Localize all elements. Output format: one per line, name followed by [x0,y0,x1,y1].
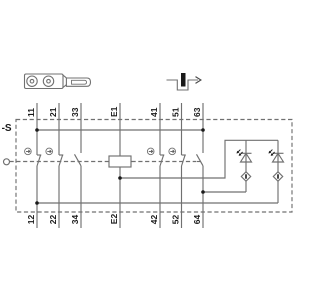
svg-text:33: 33 [70,107,80,117]
terminal E2 [109,167,120,228]
svg-text:51: 51 [171,107,181,117]
svg-text:41: 41 [149,107,159,117]
terminal 22 [48,166,59,228]
terminal 21 [48,103,59,155]
terminal 52 [171,166,182,228]
icon: module insertion symbol with arrow [167,73,201,90]
svg-text:63: 63 [192,107,202,117]
series element F2 (diamond) [273,172,282,181]
junction at 12 [35,201,39,205]
terminal 11 [26,103,37,155]
wire coil E2 to LED bus [120,140,278,178]
svg-text:-S: -S [2,123,12,134]
contact 51-52 NC blade and seat [182,155,186,166]
LED V2 [269,150,284,162]
svg-text:34: 34 [70,214,80,224]
svg-text:42: 42 [149,214,159,224]
contact 11-12 NC blade and seat [37,155,41,166]
wire 12 to LED branch 2 [37,202,278,204]
junction at 64 [201,190,205,194]
mechanical linkage (dashed) [10,161,201,163]
LED branch 2 wire [277,140,279,203]
terminal 63 [192,103,203,153]
contact 33-34 NO blade [75,154,82,166]
wire top bus 11 to 63 [37,129,203,131]
terminal E1 [109,103,120,156]
LED branch 1 wire [245,140,247,192]
enclosure dashed outline [16,120,292,213]
positive-opening symbol at contact 11-12 [25,148,32,155]
contact 21-22 NC blade and seat [59,155,63,166]
svg-text:11: 11 [26,108,36,117]
terminal 42 [149,166,160,228]
svg-text:21: 21 [48,107,58,117]
positive-opening symbol at contact 41-42 [147,148,154,155]
series element F1 (diamond) [241,172,250,181]
terminal 64 [192,166,203,228]
reference designator -S [2,123,12,134]
svg-text:12: 12 [26,214,36,224]
terminal 34 [70,166,81,228]
icon: plug-in relay pictogram [25,74,91,89]
positive-opening symbol at contact 51-52 [169,148,176,155]
svg-text:22: 22 [48,214,58,224]
svg-text:E2: E2 [109,214,119,225]
coil E1-E2 [109,156,131,167]
terminal 33 [70,103,81,153]
svg-text:52: 52 [171,214,181,224]
terminal 41 [149,103,160,155]
manual actuator terminal (circle) [4,159,10,165]
contact 41-42 NC blade and seat [160,155,164,166]
terminal 12 [26,166,37,228]
junction at 11 top bus [35,128,39,132]
junction at coil E2 wire [118,176,122,180]
contact 63-64 NO blade [197,154,204,166]
junction at 63 top bus [201,128,205,132]
svg-text:E1: E1 [109,106,119,117]
wire 64 to LED branch 1 [203,191,246,193]
terminal 51 [171,103,182,155]
LED V1 [237,150,252,162]
positive-opening symbol at contact 21-22 [46,148,53,155]
svg-text:64: 64 [192,214,202,224]
